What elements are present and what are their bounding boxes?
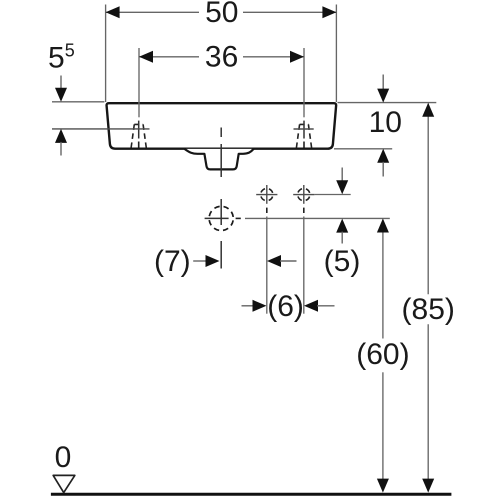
dimension (5): upper extension line (fixing hole level): [315, 194, 351, 196]
fixing hole left: dash below: [266, 208, 268, 213]
dimension 36: left extension line: [138, 48, 140, 117]
dimension (7): opposite arrowhead at fixing line: [267, 255, 281, 267]
fixing hole right: dashed circle: [298, 189, 310, 201]
dimension (5): upper arrowhead: [336, 180, 348, 194]
svg-text:(60): (60): [356, 338, 409, 371]
svg-text:(6): (6): [267, 290, 304, 323]
dimension (6): right arrowhead: [304, 300, 318, 312]
siphon circle dashed: [209, 206, 233, 230]
dimension 10: upper arrowhead: [377, 89, 389, 103]
dimension 36: line left segment: [139, 56, 199, 58]
svg-text:(7): (7): [154, 245, 191, 278]
svg-text:36: 36: [205, 40, 238, 73]
fixing hole right: cross: [293, 194, 314, 196]
tap hole right: center vertical: [303, 121, 305, 139]
dimension (7): opposite arrow stem: [280, 260, 297, 262]
fixing hole left: cross: [256, 194, 277, 196]
tap hole right: trapezoid dashed: [296, 124, 311, 147]
dimension 10: bottom extension line: [334, 148, 392, 150]
ground line: [51, 493, 452, 496]
dimension (7): arrow stem: [193, 260, 206, 262]
dimension (85): bottom arrowhead: [422, 479, 434, 493]
dimension 36: right extension line: [303, 48, 305, 117]
basin centerline segment 3 (through siphon circle): [220, 199, 222, 225]
basin centerline segment 1: [220, 128, 222, 138]
dimension 36: line right segment: [243, 56, 304, 58]
dimension 50: line right segment: [243, 11, 336, 13]
dimension (6): left arrow stem: [242, 305, 254, 307]
dimension (85): top arrowhead: [422, 103, 434, 117]
dimension (5): lower extension line (siphon level): [245, 217, 390, 219]
dimension 10: top extension line: [338, 102, 437, 104]
dimension 5^5: lower extension line (through left tap hole cross): [52, 128, 150, 130]
dimension 5^5: upper arrow stem: [60, 76, 62, 90]
basin centerline segment 4 (below siphon, target of (7)): [220, 241, 222, 269]
dimension (5): lower arrowhead: [336, 219, 348, 233]
dimension (60): line lower segment: [382, 372, 384, 479]
dimension 10: lower arrowhead: [377, 149, 389, 163]
dimension (85): line upper segment: [427, 104, 429, 294]
dimension (7): arrowhead to centerline: [206, 255, 220, 267]
dimension (60): top arrowhead: [377, 219, 389, 233]
dimension 50: left arrowhead: [106, 6, 120, 18]
tap hole left: center vertical: [138, 121, 140, 139]
svg-text:(85): (85): [402, 293, 455, 326]
dimension 36: right arrowhead: [290, 51, 304, 63]
dimension 5^5: upper arrowhead: [55, 88, 67, 102]
basin centerline segment 2 (through drain): [220, 144, 222, 177]
svg-text:10: 10: [369, 106, 402, 139]
dimension 50: left extension line: [105, 5, 107, 103]
svg-text:(5): (5): [324, 245, 361, 278]
dimension (5): upper arrow stem: [341, 168, 343, 183]
fixing hole left: extension line down: [266, 217, 268, 314]
dimension (85): line lower segment: [427, 324, 429, 479]
svg-text:0: 0: [55, 441, 72, 474]
dimension 50: right arrowhead: [322, 6, 336, 18]
siphon cross arm horizontal: [205, 217, 229, 219]
dimension 5^5: upper extension line: [52, 101, 104, 103]
fixing hole right: dash below: [303, 208, 305, 213]
basin drain outlet: [185, 149, 254, 170]
tap hole right: cross arm: [294, 128, 314, 130]
dimension 5^5: lower arrow stem: [60, 142, 62, 156]
dimension 5^5: lower arrowhead: [55, 129, 67, 143]
dimension 36: left arrowhead: [139, 51, 153, 63]
dimension 10: lower arrow stem: [382, 162, 384, 177]
siphon cross dash right: [236, 217, 241, 219]
dimension 50: right extension line: [335, 5, 337, 103]
tap hole left: trapezoid dashed: [131, 124, 146, 147]
fixing hole right: extension line down: [303, 217, 305, 314]
dimension 10: upper arrow stem: [382, 75, 384, 91]
svg-text:50: 50: [205, 0, 238, 29]
dimension 50: line left segment: [106, 11, 199, 13]
dimension (60): line upper segment: [382, 220, 384, 339]
datum triangle: [53, 475, 75, 492]
dimension (6): right arrow stem: [317, 305, 335, 307]
dimension (60): bottom arrowhead: [377, 479, 389, 493]
dimension (5): lower arrow stem: [341, 232, 343, 244]
fixing hole left: dashed circle: [261, 189, 273, 201]
basin outline: [107, 103, 337, 149]
dimension (6): left arrowhead: [253, 300, 267, 312]
